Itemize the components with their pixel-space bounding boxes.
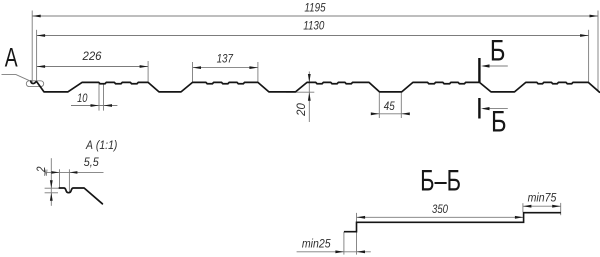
svg-text:137: 137 xyxy=(217,53,234,66)
svg-text:350: 350 xyxy=(432,203,448,216)
svg-text:226: 226 xyxy=(82,50,102,63)
svg-text:1130: 1130 xyxy=(303,20,325,33)
svg-text:2: 2 xyxy=(35,167,48,173)
svg-text:Б–Б: Б–Б xyxy=(420,163,461,197)
svg-text:20: 20 xyxy=(295,103,308,117)
svg-text:А (1:1): А (1:1) xyxy=(85,139,117,152)
svg-text:1195: 1195 xyxy=(304,2,326,15)
svg-text:Б: Б xyxy=(491,105,507,138)
svg-text:min25: min25 xyxy=(302,238,331,251)
svg-text:5,5: 5,5 xyxy=(84,156,100,169)
svg-text:45: 45 xyxy=(384,100,396,113)
svg-text:Б: Б xyxy=(490,34,506,67)
svg-text:10: 10 xyxy=(77,92,87,105)
svg-text:А: А xyxy=(5,42,18,72)
svg-text:min75: min75 xyxy=(528,192,557,205)
